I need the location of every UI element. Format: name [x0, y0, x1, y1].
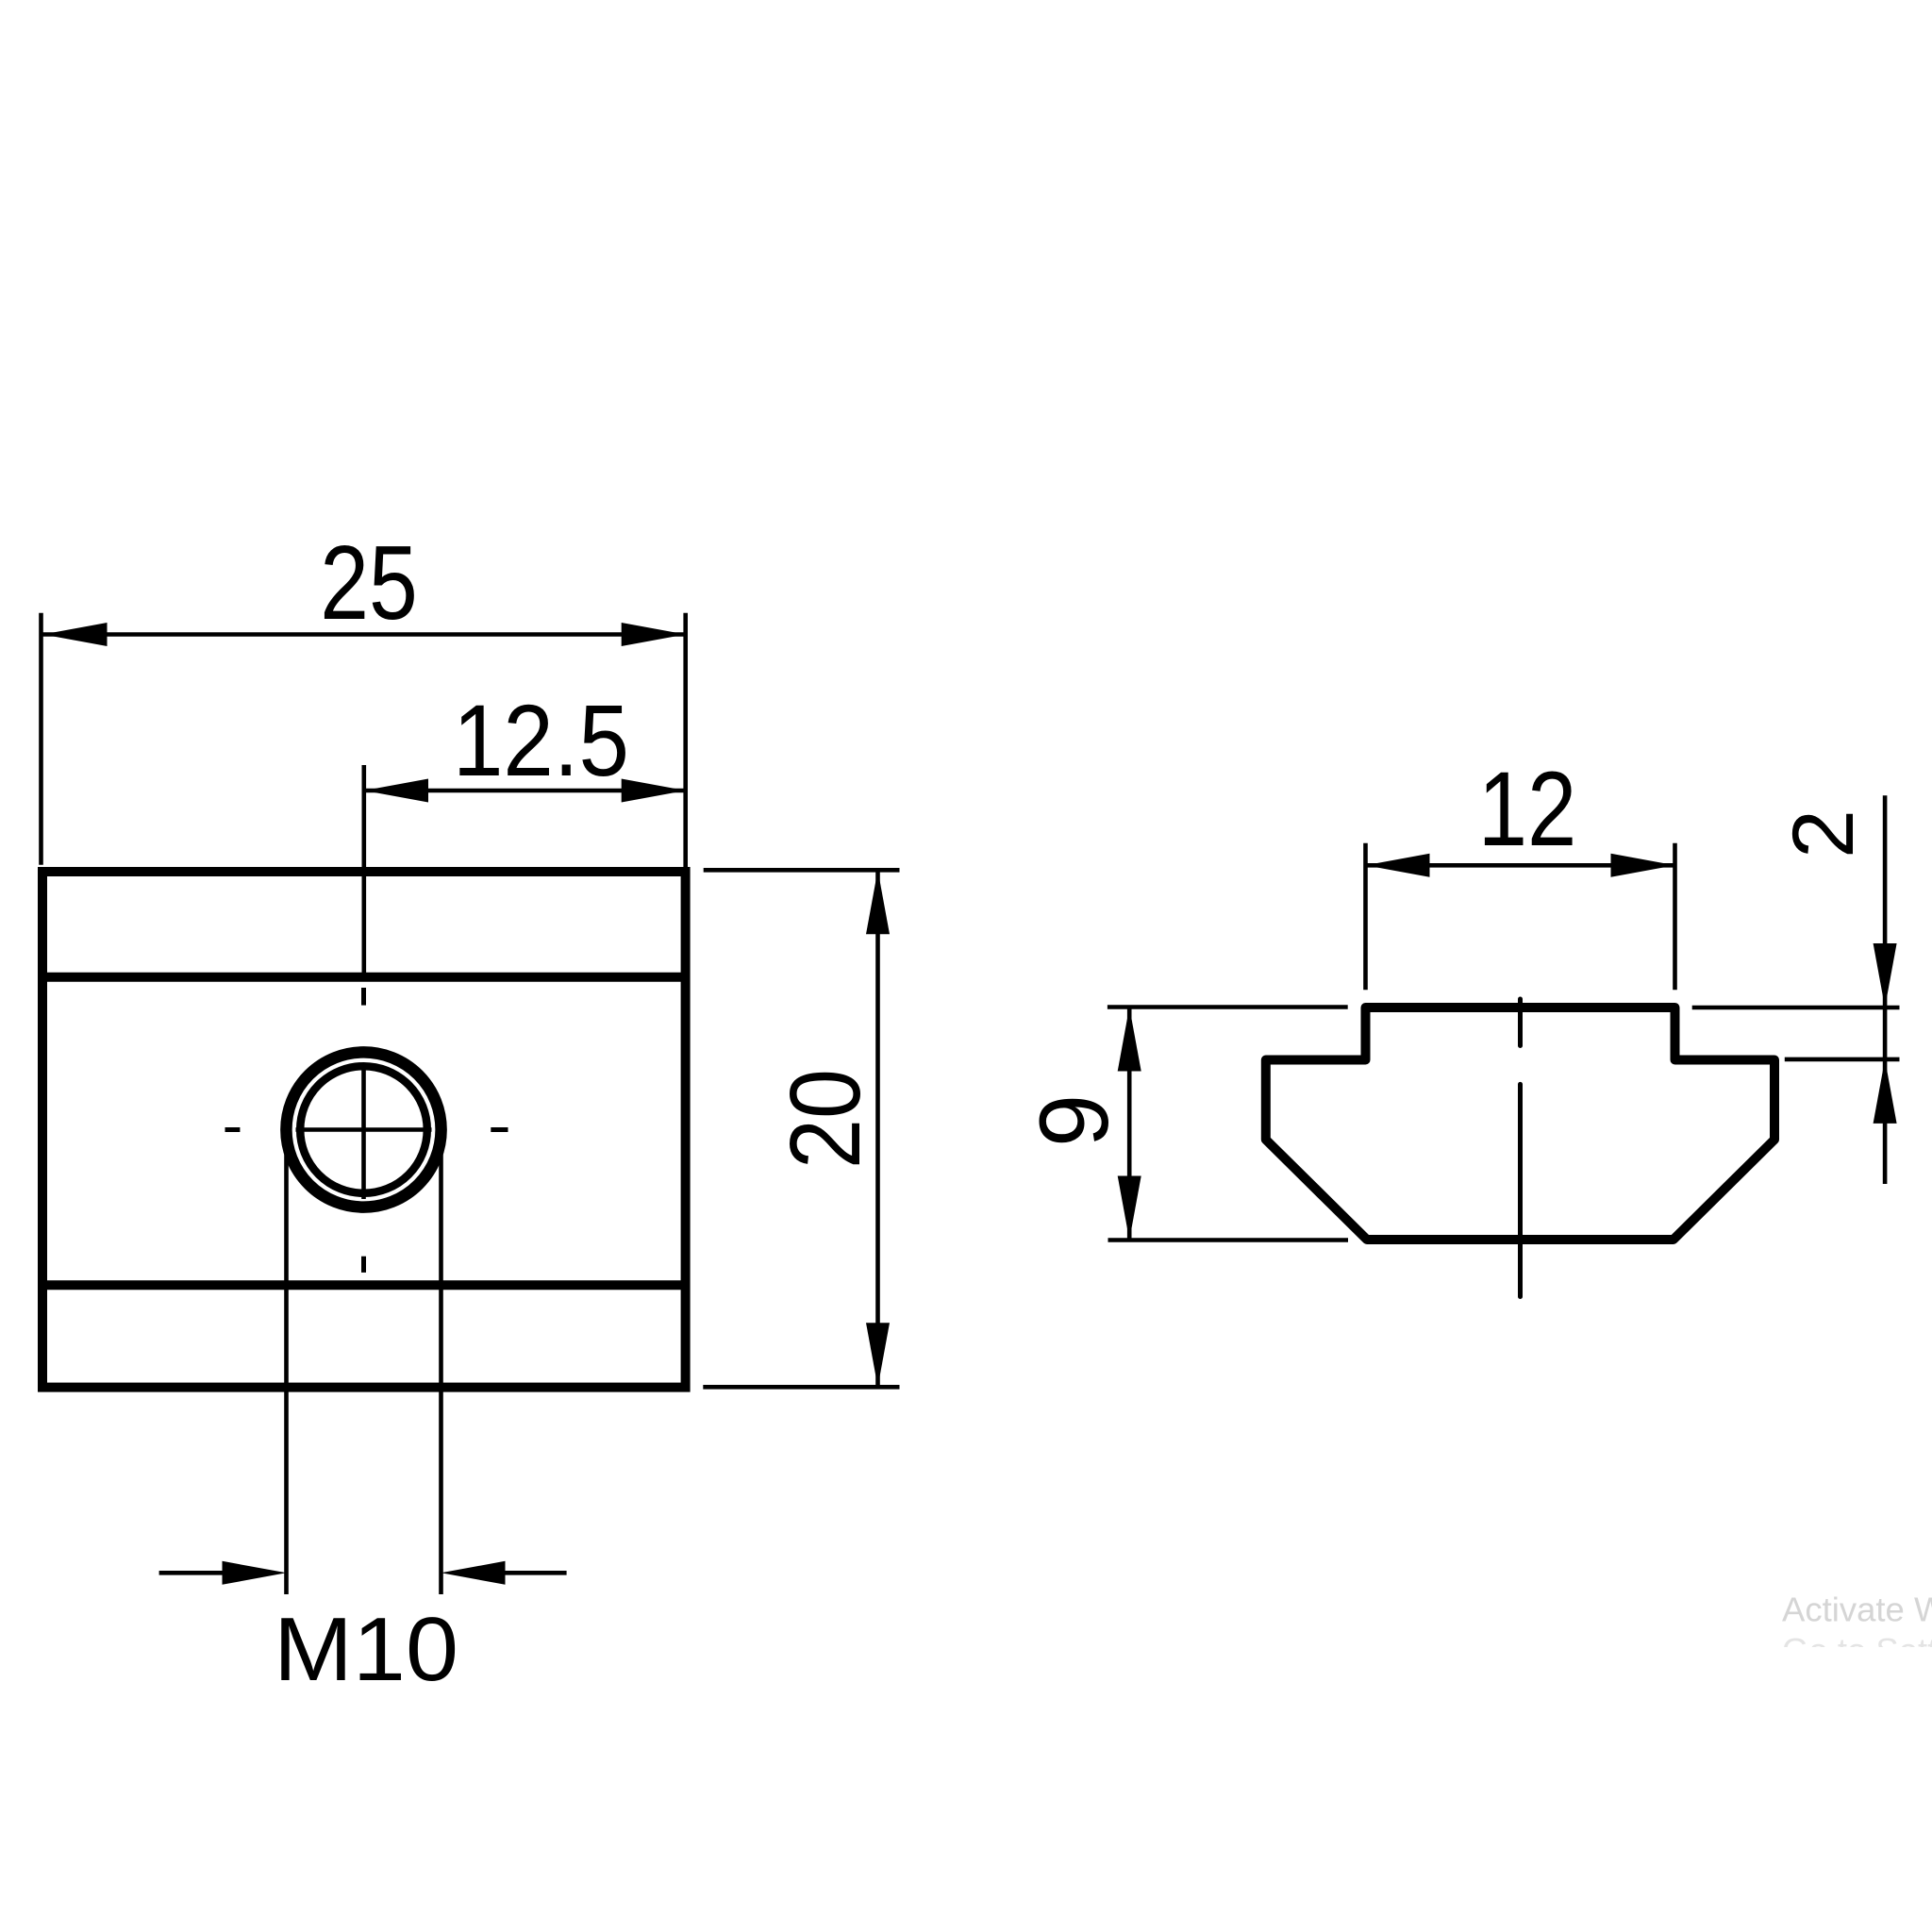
svg-text:Go to Settings to activate Win: Go to Settings to activate Windows. — [1782, 1631, 1932, 1670]
svg-text:2: 2 — [1775, 809, 1872, 858]
svg-text:12.5: 12.5 — [453, 683, 629, 797]
svg-text:25: 25 — [320, 525, 418, 641]
svg-text:M10: M10 — [274, 1599, 458, 1700]
svg-text:Activate Windows: Activate Windows — [1782, 1591, 1932, 1629]
svg-text:12: 12 — [1478, 750, 1577, 868]
svg-text:20: 20 — [770, 1069, 881, 1169]
svg-text:9: 9 — [1020, 1094, 1129, 1147]
